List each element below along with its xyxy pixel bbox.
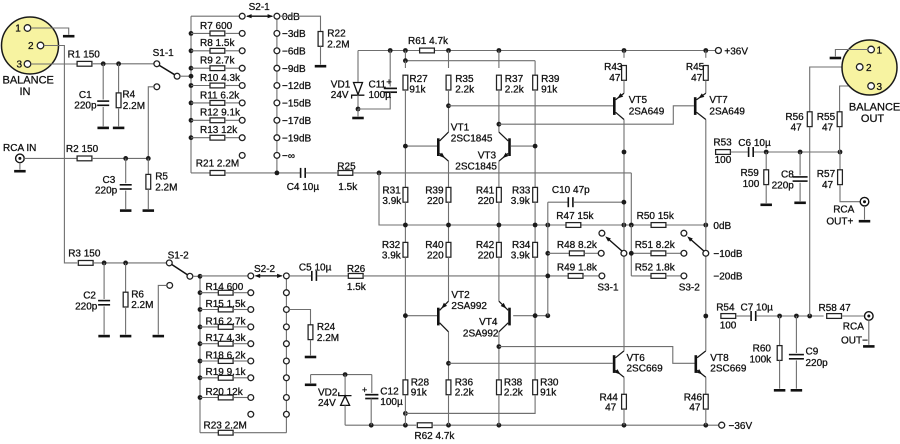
- svg-text:R58 47: R58 47: [819, 303, 852, 314]
- contact circles S2-1 right column: [274, 13, 280, 158]
- terminal -36V: [719, 421, 753, 432]
- ground (RCA OUT-): [863, 345, 875, 348]
- svg-text:2.2k: 2.2k: [455, 85, 475, 96]
- svg-text:220p: 220p: [772, 181, 795, 192]
- resistor R13 12k: [191, 125, 239, 140]
- wire VT8 collector to out- node: [705, 256, 707, 351]
- svg-text:C9: C9: [806, 346, 819, 357]
- wire second bias line (R28/R30 bottoms): [403, 411, 535, 416]
- junction dot R25 node: [377, 171, 382, 176]
- svg-text:OUT: OUT: [861, 113, 885, 125]
- label 0dB (S3-2): [713, 221, 731, 232]
- svg-text:100: 100: [720, 320, 737, 331]
- svg-text:VT1: VT1: [451, 122, 470, 133]
- wire R25 to feedback corner: [353, 173, 632, 225]
- junction dot VT3 collector node: [497, 122, 502, 127]
- resistor R27 91k: [403, 61, 428, 146]
- svg-text:S2-2: S2-2: [254, 264, 276, 275]
- resistor R35 2.2k: [446, 51, 475, 133]
- wire +36V rail: [358, 48, 715, 53]
- transistor VT1 2SC1845: [403, 122, 493, 161]
- capacitor C11 100µ polarized: [358, 51, 397, 110]
- switch S3-1 lever: [597, 236, 626, 293]
- wire R26 output line (to R49 row): [363, 275, 568, 277]
- svg-text:2: 2: [28, 41, 34, 52]
- resistor R49 1.8k: [557, 263, 599, 279]
- ground (XLR OUT pin1): [830, 57, 842, 60]
- label −19dB position: [282, 133, 312, 144]
- svg-text:3.9k: 3.9k: [511, 196, 531, 207]
- resistor R39 220 (emitter VT1): [425, 161, 451, 225]
- svg-text:47: 47: [691, 73, 703, 84]
- svg-text:C8: C8: [781, 170, 794, 181]
- svg-text:R55: R55: [817, 112, 836, 123]
- svg-text:R35: R35: [455, 74, 474, 85]
- svg-text:R62 4.7k: R62 4.7k: [414, 431, 455, 442]
- svg-text:2SC1845: 2SC1845: [451, 134, 493, 145]
- switch S1-2: [166, 251, 192, 289]
- svg-text:R16 2.7k: R16 2.7k: [206, 316, 247, 327]
- svg-text:91k: 91k: [409, 85, 426, 96]
- resistor R2 150: [66, 144, 99, 161]
- svg-text:2SC1845: 2SC1845: [455, 162, 497, 173]
- svg-text:VT2: VT2: [451, 290, 470, 301]
- svg-text:R26: R26: [347, 264, 366, 275]
- resistor R44 47: [600, 377, 627, 425]
- wire RCA IN to R2: [24, 157, 77, 159]
- svg-text:2SA649: 2SA649: [709, 106, 745, 117]
- svg-text:R33: R33: [512, 186, 531, 197]
- capacitor C6 10µ: [738, 138, 771, 157]
- svg-text:C4 10µ: C4 10µ: [287, 182, 320, 193]
- wire R2 to node: [92, 157, 148, 159]
- svg-text:OUT+: OUT+: [826, 216, 853, 227]
- svg-text:−36V: −36V: [729, 421, 753, 432]
- svg-text:R56: R56: [785, 112, 804, 123]
- svg-text:2.2M: 2.2M: [131, 300, 153, 311]
- svg-text:R6: R6: [131, 289, 144, 300]
- svg-text:R4: R4: [122, 90, 135, 101]
- svg-text:100: 100: [715, 155, 732, 166]
- svg-text:R41: R41: [476, 186, 495, 197]
- svg-text:+36V: +36V: [724, 46, 748, 57]
- svg-text:3.9k: 3.9k: [382, 250, 402, 261]
- svg-text:R59: R59: [741, 168, 760, 179]
- wire VT3 collector to VT7 base: [499, 106, 694, 124]
- ground (XLR IN pin 1): [63, 35, 74, 38]
- wire second bias line (R27/R39 tops): [403, 51, 535, 76]
- svg-text:R61 4.7k: R61 4.7k: [408, 36, 449, 47]
- capacitor C7 10µ: [741, 302, 774, 321]
- wire pin1 to ground: [31, 28, 69, 35]
- resistor R20 12k: [200, 387, 248, 400]
- connector RCA IN: [3, 143, 36, 169]
- svg-text:−19dB: −19dB: [282, 133, 312, 144]
- svg-text:R47 15k: R47 15k: [556, 211, 594, 222]
- resistor R36 2.2k: [446, 332, 475, 425]
- contact circles S2-2 right column: [284, 273, 290, 417]
- svg-text:IN: IN: [20, 86, 31, 98]
- ground (VD1): [352, 109, 364, 118]
- resistor R47 15k: [556, 211, 594, 228]
- svg-text:−3dB: −3dB: [282, 29, 306, 40]
- switch S1-1: [153, 48, 180, 90]
- resistor R58 47: [819, 303, 852, 319]
- ground (R59): [760, 204, 772, 207]
- svg-text:3.9k: 3.9k: [382, 196, 402, 207]
- capacitor C2 220p: [75, 263, 110, 335]
- switch S2-1 selector arrow: [246, 2, 273, 18]
- svg-text:47: 47: [822, 123, 834, 134]
- resistor R30 91k: [405, 316, 558, 414]
- ground (C8): [794, 202, 806, 205]
- resistor R23 2.2M: [200, 421, 286, 436]
- svg-text:220: 220: [478, 250, 495, 261]
- resistor R57 47: [817, 152, 861, 202]
- svg-text:2.2M: 2.2M: [327, 40, 349, 51]
- junction dot attenuator output: [275, 171, 280, 176]
- svg-text:VT5: VT5: [629, 95, 648, 106]
- contact circle S3-1 (0dB): [599, 230, 605, 236]
- resistor R53 100: [713, 137, 732, 166]
- svg-text:BALANCE: BALANCE: [3, 74, 54, 86]
- svg-text:2SC669: 2SC669: [627, 363, 664, 374]
- svg-text:C5 10µ: C5 10µ: [299, 262, 332, 273]
- contact circle S3-2 (R52): [681, 273, 687, 279]
- svg-text:100µ: 100µ: [380, 397, 403, 408]
- svg-text:R51 8.2k: R51 8.2k: [635, 240, 676, 251]
- junction dots after R1: [101, 61, 121, 66]
- ground (RCA OUT+): [859, 220, 871, 223]
- resistor R7 600: [191, 21, 239, 36]
- capacitor C8 220p: [772, 152, 808, 201]
- wire VT5 collector to output node: [623, 120, 625, 153]
- junction dots after R3: [102, 261, 128, 266]
- junction dot VT4 collector node: [497, 344, 502, 349]
- svg-text:R43: R43: [604, 62, 623, 73]
- connector RCA OUT+: [826, 197, 868, 227]
- wire VT4 collector to VT8 base: [499, 347, 695, 364]
- svg-text:R22: R22: [327, 29, 346, 40]
- svg-text:VD2: VD2: [318, 387, 338, 398]
- svg-text:R5: R5: [155, 171, 168, 182]
- svg-text:−15dB: −15dB: [282, 99, 312, 110]
- junction dot out- node: [703, 314, 708, 319]
- svg-text:R20 12k: R20 12k: [206, 387, 244, 398]
- svg-text:1: 1: [877, 45, 883, 56]
- svg-text:R13 12k: R13 12k: [200, 125, 238, 136]
- svg-text:R24: R24: [317, 322, 336, 333]
- resistor R15 1.5k: [200, 299, 248, 312]
- ground (VD2 line): [305, 375, 317, 385]
- junction dot VT1 collector node: [446, 103, 451, 108]
- resistor R28 91k: [403, 316, 429, 426]
- transistor VT7 2SA649: [694, 93, 746, 119]
- svg-text:VT7: VT7: [709, 95, 728, 106]
- label −15dB position: [282, 99, 312, 110]
- wire S3-2 common riser: [705, 225, 707, 251]
- resistor R17 4.3k: [200, 333, 248, 346]
- resistor R45 47: [686, 51, 708, 94]
- resistor R42 220: [476, 225, 501, 301]
- svg-text:−∞: −∞: [282, 151, 295, 162]
- wire S3-2 left bus: [629, 225, 634, 276]
- svg-text:2.2k: 2.2k: [455, 388, 475, 399]
- wire R1 to S1-1: [92, 63, 154, 65]
- wire pin2 down to S1-2 row: [44, 46, 77, 263]
- connector XLR BALANCE IN: [2, 17, 59, 98]
- resistor R51 8.2k: [631, 240, 681, 256]
- contact circles S2-1 left column: [239, 13, 245, 158]
- svg-text:VT4: VT4: [479, 317, 498, 328]
- resistor R9 2.7k: [191, 56, 239, 71]
- wire out+ node down to S3-1 common: [623, 152, 625, 251]
- resistor R33 3.9k: [511, 146, 538, 225]
- svg-text:220: 220: [478, 196, 495, 207]
- zener diode VD2 24V: [318, 375, 352, 426]
- wire S2-1 output bus: [276, 16, 278, 173]
- wire pin3 to R1: [31, 63, 78, 65]
- resistor R8 1.5k: [191, 38, 239, 53]
- svg-text:R8 1.5k: R8 1.5k: [200, 38, 235, 49]
- svg-text:R7 600: R7 600: [200, 21, 233, 32]
- ground (C1): [97, 127, 109, 130]
- svg-text:0dB: 0dB: [282, 12, 300, 23]
- svg-text:91k: 91k: [411, 388, 428, 399]
- resistor R19 9.1k: [200, 367, 248, 380]
- resistor R31 3.9k: [382, 146, 407, 225]
- svg-text:2SA649: 2SA649: [629, 106, 665, 117]
- resistor R55 47: [817, 86, 868, 152]
- svg-text:+: +: [386, 77, 392, 88]
- capacitor C3 220p: [95, 158, 132, 209]
- contact circle S3-2 (R51): [681, 250, 687, 256]
- svg-text:R18 6.2k: R18 6.2k: [206, 350, 247, 361]
- svg-text:R50 15k: R50 15k: [637, 211, 675, 222]
- ground (R4): [113, 127, 125, 130]
- wire R54 to C7: [736, 315, 751, 317]
- wire bottom ladder left bus: [198, 274, 203, 433]
- svg-text:220: 220: [427, 250, 444, 261]
- wire bottom 0dB direct tap: [200, 275, 248, 277]
- svg-text:R39: R39: [425, 186, 444, 197]
- wire VT7 collector down: [705, 120, 707, 226]
- resistor R54 100: [716, 302, 737, 331]
- svg-text:C7 10µ: C7 10µ: [741, 302, 774, 313]
- svg-text:R60: R60: [753, 343, 772, 354]
- svg-text:R52 1.8k: R52 1.8k: [635, 263, 676, 274]
- wire R53 to C6: [730, 151, 748, 153]
- label −17dB position: [282, 116, 312, 127]
- svg-text:RCA IN: RCA IN: [3, 143, 36, 154]
- resistor R4 2.2M: [116, 64, 145, 127]
- resistor R38 2.2k: [497, 332, 524, 425]
- svg-text:R12 9.1k: R12 9.1k: [200, 108, 241, 119]
- svg-text:R45: R45: [686, 62, 705, 73]
- wire VT2 base node: [403, 313, 437, 318]
- junction dot VD1 anode: [356, 107, 361, 112]
- resistor R12 9.1k: [191, 108, 241, 123]
- wire S1-1 RCA contact riser: [148, 87, 154, 159]
- label −3dB position: [282, 29, 306, 40]
- svg-text:R10 4.3k: R10 4.3k: [200, 73, 241, 84]
- svg-text:S3-2: S3-2: [679, 282, 701, 293]
- resistor R43 47: [604, 51, 626, 94]
- wire XLR OUT pin1 to ground: [835, 50, 868, 57]
- resistor R56 47: [785, 67, 856, 316]
- svg-text:R53: R53: [713, 137, 732, 148]
- resistor R62 4.7k: [414, 423, 455, 442]
- resistor R1 150: [68, 50, 101, 67]
- wire VT4 base node to S3-1 bus: [513, 313, 550, 318]
- junction dot VD2 top: [343, 372, 348, 377]
- capacitor C9 220p: [789, 316, 828, 389]
- wire S1-2 ground contact: [158, 285, 167, 334]
- switch S3-2 lever: [679, 236, 709, 293]
- ground (R60): [774, 389, 786, 392]
- zener diode VD1 24V: [331, 51, 365, 110]
- svg-text:3: 3: [877, 82, 883, 93]
- svg-text:C10 47p: C10 47p: [552, 185, 590, 196]
- resistor R5 2.2M: [146, 158, 178, 209]
- contact circles S2-2 left column: [248, 273, 254, 417]
- resistor R24 2.2M: [308, 322, 339, 355]
- svg-text:C12: C12: [380, 387, 399, 398]
- svg-text:R2 150: R2 150: [66, 144, 99, 155]
- svg-text:R48 8.2k: R48 8.2k: [557, 240, 598, 251]
- wire S3-1 left bus: [545, 202, 550, 316]
- svg-text:RCA: RCA: [843, 322, 864, 333]
- resistor R34 3.9k: [511, 225, 538, 316]
- ground (C2): [98, 335, 110, 338]
- svg-text:R9 2.7k: R9 2.7k: [200, 56, 235, 67]
- svg-text:0dB: 0dB: [713, 221, 731, 232]
- resistor R10 4.3k: [191, 73, 241, 88]
- svg-text:100: 100: [743, 179, 760, 190]
- svg-text:R3 150: R3 150: [68, 249, 101, 260]
- svg-text:2: 2: [866, 63, 872, 74]
- label -20dB (S3-2): [713, 272, 743, 283]
- transistor VT2 2SA992: [437, 290, 487, 332]
- resistor R37 2.2k: [497, 51, 525, 133]
- svg-text:R31: R31: [382, 186, 401, 197]
- svg-text:−6dB: −6dB: [282, 46, 306, 57]
- svg-text:C2: C2: [83, 291, 96, 302]
- svg-text:2SA992: 2SA992: [463, 328, 499, 339]
- svg-text:S2-1: S2-1: [249, 2, 271, 13]
- contact circle S3-2 (0dB): [681, 230, 687, 236]
- ground (C9): [791, 389, 803, 392]
- svg-text:1.5k: 1.5k: [347, 282, 367, 293]
- resistor R16 2.7k: [200, 316, 248, 329]
- svg-text:220p: 220p: [806, 358, 829, 369]
- resistor R25 1.5k: [337, 162, 358, 194]
- capacitor C5 10µ: [289, 262, 331, 281]
- wire bus tap to R24: [289, 310, 310, 325]
- svg-text:R19 9.1k: R19 9.1k: [206, 367, 247, 378]
- label -10dB (S3-2): [713, 249, 743, 260]
- label −12dB position: [282, 81, 312, 92]
- svg-text:91k: 91k: [540, 388, 557, 399]
- wire VT1 collector to VT5 base: [449, 105, 614, 107]
- capacitor C12 100µ polarized: [362, 375, 403, 426]
- ground (R6): [120, 335, 132, 338]
- svg-text:220: 220: [427, 196, 444, 207]
- svg-text:47: 47: [791, 123, 803, 134]
- svg-text:24V: 24V: [331, 90, 349, 101]
- wire C5 to R26: [317, 275, 348, 277]
- svg-text:R54: R54: [716, 302, 735, 313]
- svg-text:R49 1.8k: R49 1.8k: [557, 263, 598, 274]
- svg-text:−9dB: −9dB: [282, 64, 306, 75]
- capacitor C10 47p: [548, 185, 627, 207]
- switch S2-2 selector arrow: [254, 264, 283, 278]
- svg-text:1: 1: [15, 23, 21, 34]
- junction dots after R2: [123, 156, 150, 161]
- svg-text:R15 1.5k: R15 1.5k: [206, 299, 247, 310]
- svg-text:2.2k: 2.2k: [504, 388, 524, 399]
- svg-text:OUT−: OUT−: [841, 335, 868, 346]
- svg-text:220p: 220p: [75, 301, 98, 312]
- resistor R50 15k: [637, 211, 675, 228]
- contact circle S3-1 (R48): [598, 250, 604, 256]
- svg-text:R1 150: R1 150: [68, 50, 101, 61]
- svg-text:RCA: RCA: [833, 204, 854, 215]
- wire VT6 collector to S3-1 common: [623, 256, 625, 351]
- svg-text:−17dB: −17dB: [282, 116, 312, 127]
- junction dot VT2 collector node: [446, 361, 451, 366]
- wire S1-2 throw to ladder bus: [193, 275, 200, 277]
- svg-text:100µ: 100µ: [369, 90, 392, 101]
- resistor R46 47: [684, 377, 709, 425]
- svg-text:R37: R37: [505, 74, 524, 85]
- resistor R11 6.2k: [191, 90, 240, 105]
- connector XLR BALANCE OUT: [842, 40, 900, 125]
- label −6dB position: [282, 46, 306, 57]
- wire out+ line: [754, 150, 842, 155]
- svg-text:220p: 220p: [74, 100, 97, 111]
- wire 0dB tap to R22: [280, 16, 321, 31]
- resistor R52 1.8k: [631, 263, 681, 279]
- wire R58 to RCA OUT-: [842, 315, 865, 317]
- svg-text:−10dB: −10dB: [713, 249, 743, 260]
- wire R3 to S1-2: [93, 262, 166, 264]
- resistor R18 6.2k: [200, 350, 248, 363]
- svg-text:S1-1: S1-1: [153, 48, 175, 59]
- resistor R41 220: [476, 161, 501, 225]
- label −9dB position: [282, 64, 306, 75]
- svg-text:1.5k: 1.5k: [338, 182, 358, 193]
- svg-text:R23 2.2M: R23 2.2M: [204, 421, 247, 432]
- svg-text:+: +: [362, 385, 367, 395]
- ground (R5): [143, 209, 155, 212]
- svg-text:R39: R39: [541, 74, 560, 85]
- svg-text:R25: R25: [337, 162, 356, 173]
- svg-text:2SC669: 2SC669: [710, 363, 747, 374]
- svg-text:C11: C11: [369, 80, 387, 91]
- svg-text:R27: R27: [409, 74, 428, 85]
- svg-text:S3-1: S3-1: [597, 282, 619, 293]
- svg-text:220p: 220p: [95, 185, 118, 196]
- capacitor C4 10µ: [287, 168, 337, 193]
- wire top ladder left bus: [189, 16, 194, 173]
- connector RCA OUT-: [841, 312, 873, 347]
- contact circle S3-1 (R49): [599, 273, 605, 279]
- resistor R14 600: [200, 282, 248, 295]
- resistor R22 2.2M: [318, 29, 349, 65]
- svg-text:VT3: VT3: [478, 151, 497, 162]
- svg-text:2.2M: 2.2M: [317, 333, 339, 344]
